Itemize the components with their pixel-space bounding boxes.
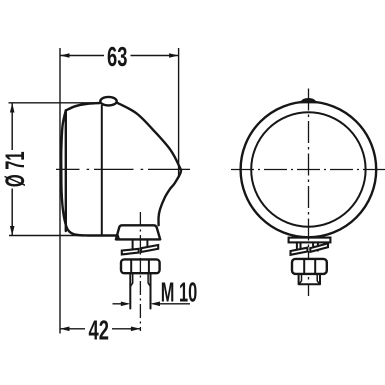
- stud left view: [130, 273, 150, 308]
- extension line right x=178.6: [178, 48, 180, 176]
- right view horizontal centerline: [231, 169, 385, 171]
- stud thread relief front view: [299, 274, 319, 284]
- lamp lens front bulge and bottom: [61, 111, 119, 240]
- dimension 63 arrow right: [169, 53, 179, 58]
- lamp lens inner rim line: [65, 111, 67, 232]
- M10 arrow right: [151, 302, 161, 307]
- outer ring circle: [241, 102, 377, 238]
- lamp seam line: [101, 106, 103, 235]
- svg-text:M 10: M 10: [161, 276, 197, 308]
- spring washer left half (side): [122, 249, 139, 255]
- lamp top profile: [66, 103, 100, 111]
- nut facet lines front view: [304, 259, 315, 273]
- dimension 63 line: [60, 55, 179, 57]
- dimension dia71 line: [11, 103, 13, 236]
- lamp housing dome curve: [117, 103, 181, 226]
- svg-text:Ø 71: Ø 71: [0, 151, 30, 187]
- top nub cap: [100, 97, 116, 106]
- spring washer right half (side): [141, 245, 158, 252]
- M10 arrow left: [121, 302, 131, 307]
- stud front view: [299, 274, 320, 284]
- dia71 arrow top: [10, 103, 15, 113]
- mounting bar front view: [289, 238, 331, 243]
- dimension M10 lines: [113, 303, 191, 305]
- nut left view: [121, 259, 160, 273]
- svg-text:42: 42: [88, 316, 108, 347]
- bolt centerline left view: [139, 212, 141, 331]
- dia71 top extension line: [9, 102, 101, 104]
- right view vertical centerline: [308, 89, 310, 297]
- stud thread relief left view: [130, 273, 150, 286]
- left view horizontal centerline: [56, 168, 190, 170]
- bolt shank left view: [133, 239, 148, 249]
- 42 arrow left: [60, 327, 70, 332]
- svg-text:63: 63: [107, 42, 127, 73]
- nut front view: [292, 259, 327, 274]
- inner lens circle: [251, 112, 365, 226]
- dia71 bottom extension line: [9, 235, 92, 237]
- dia71 arrow bottom: [10, 226, 15, 236]
- bracket neck front view: [297, 242, 318, 250]
- extension line left x=60: [59, 48, 61, 334]
- spring washer right half (front): [310, 243, 328, 252]
- dimension 63 arrow left: [60, 53, 70, 58]
- 42 arrow right: [131, 327, 141, 332]
- dimension 42 line: [60, 328, 140, 330]
- nut facet lines left view: [131, 260, 149, 273]
- mounting base left view: [116, 225, 160, 239]
- spring washer left half (front): [291, 248, 308, 255]
- nub front view (filled): [300, 98, 318, 103]
